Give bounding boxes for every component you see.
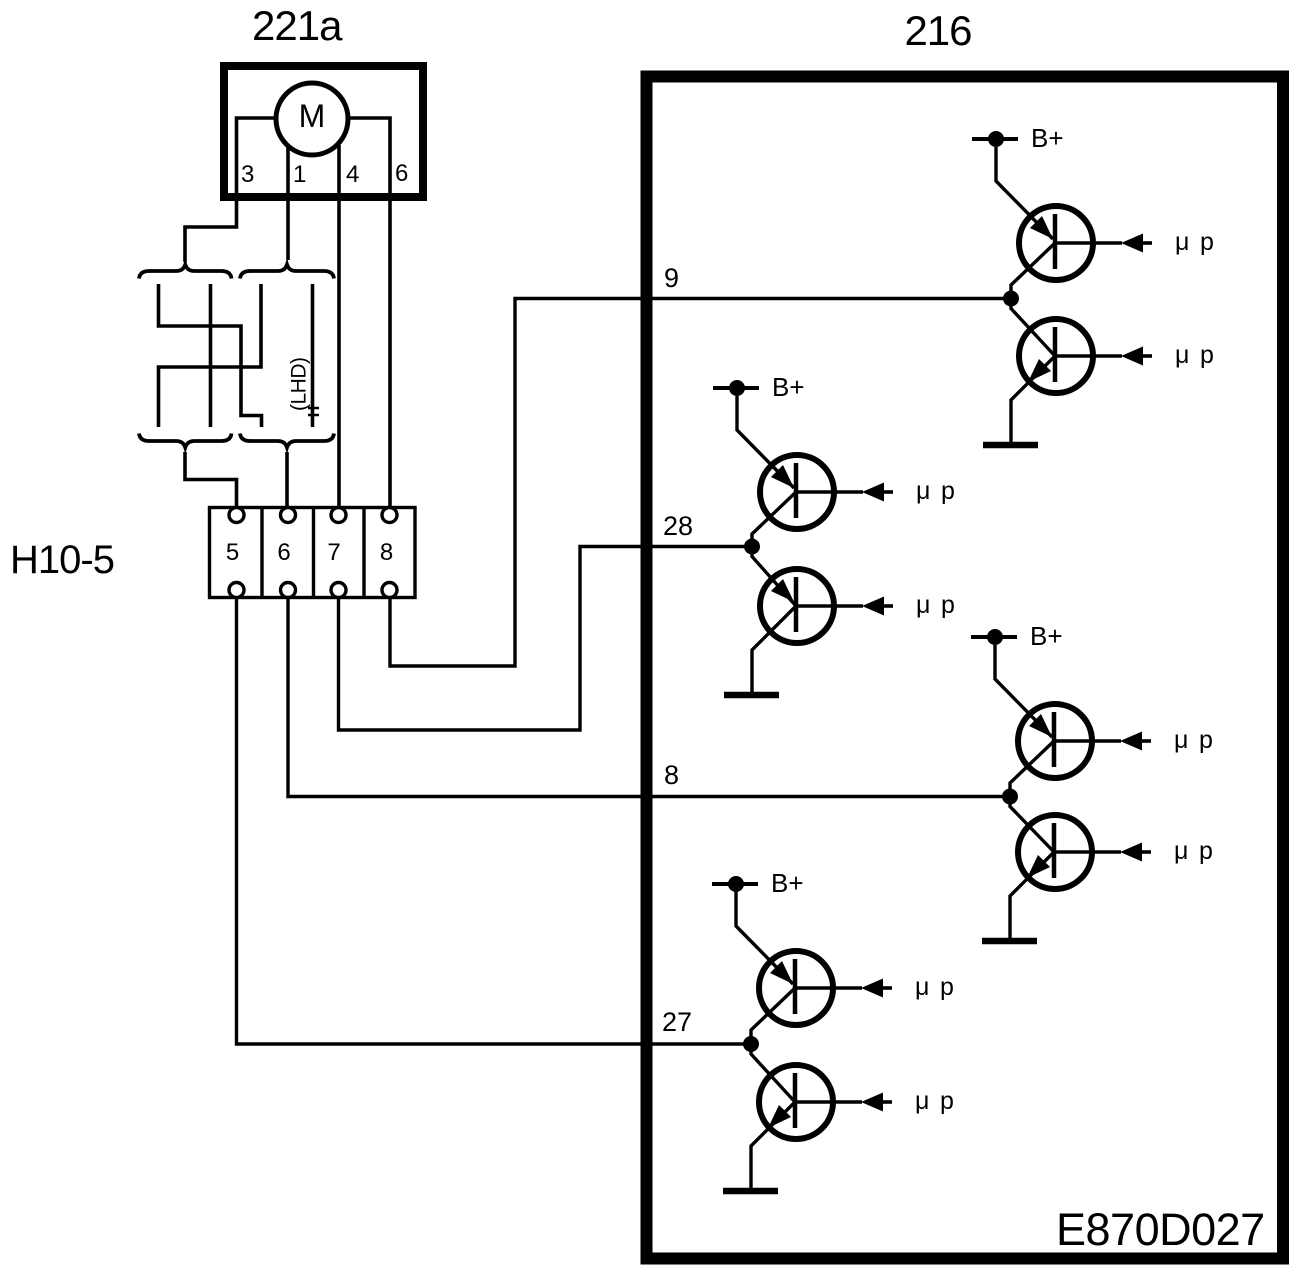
svg-text:p: p bbox=[1200, 228, 1214, 256]
transistor Q3b base lead to uP bbox=[1054, 850, 1121, 854]
svg-text:E870D027: E870D027 bbox=[1056, 1204, 1265, 1255]
wire lower-left brace to connector pin 5 bbox=[185, 452, 237, 507]
wire node 27 to Q4b bbox=[751, 1044, 795, 1102]
svg-text:8: 8 bbox=[664, 760, 679, 790]
power B+ terminal dot (pair 2) bbox=[729, 380, 745, 396]
wire lower-right brace to connector pin 6 bbox=[285, 452, 289, 507]
svg-text:p: p bbox=[1200, 341, 1214, 369]
wire node 9 to Q1b bbox=[1011, 299, 1055, 357]
transistor Q4a circle bbox=[759, 951, 833, 1025]
ECU box 216 bbox=[647, 77, 1284, 1259]
wire pin 4 lead bbox=[337, 145, 341, 507]
svg-text:M: M bbox=[299, 98, 326, 134]
svg-text:p: p bbox=[941, 591, 955, 619]
transistor Q4b circle bbox=[759, 1065, 833, 1139]
ground (pair 3) bbox=[982, 938, 1037, 945]
svg-text:μ: μ bbox=[915, 973, 929, 1001]
power B+ terminal lead (pair 4) bbox=[712, 882, 758, 886]
wire Q4b emitter to ground bbox=[751, 1102, 795, 1191]
power B+ terminal dot (pair 4) bbox=[728, 876, 744, 892]
transistor Q4b base bar bbox=[793, 1073, 798, 1128]
ground (pair 2) bbox=[724, 692, 779, 699]
svg-text:4: 4 bbox=[346, 161, 359, 188]
svg-text:B+: B+ bbox=[771, 868, 804, 898]
transistor Q3a circle bbox=[1018, 704, 1092, 778]
connector pin 7 top contact bbox=[331, 508, 346, 523]
transistor Q3b circle bbox=[1018, 815, 1092, 889]
connector H10-5 body bbox=[210, 508, 416, 598]
wire B+ stem to Q1a emitter (pair 1) bbox=[996, 147, 1053, 239]
wire Q1a collector to node 9 bbox=[1011, 243, 1055, 299]
splice ticks on w4 bbox=[308, 407, 319, 410]
wire motor left terminal to pin 3 bbox=[185, 118, 277, 262]
svg-text:(LHD): (LHD) bbox=[288, 358, 311, 412]
power B+ terminal lead (pair 3) bbox=[971, 635, 1017, 639]
uP lead stub at Q1b bbox=[1142, 354, 1152, 358]
wire Q2a collector to node 28 bbox=[752, 492, 796, 547]
transistor Q2b circle bbox=[760, 569, 834, 643]
uP input arrowhead at Q1b bbox=[1121, 347, 1143, 366]
wire w4 straight bbox=[311, 284, 315, 427]
uP lead stub at Q2b bbox=[883, 604, 893, 608]
svg-text:B+: B+ bbox=[772, 372, 805, 402]
svg-text:μ: μ bbox=[1175, 341, 1189, 369]
uP lead stub at Q3a bbox=[1141, 739, 1151, 743]
wire w1 crossover (pos1 to pos3) bbox=[159, 284, 262, 427]
wire net 9 : pin 8 to node 9 bbox=[390, 299, 1011, 667]
transistor Q1a base bar bbox=[1053, 214, 1058, 269]
ground (pair 4) bbox=[723, 1188, 778, 1195]
motor assembly box 221a bbox=[224, 66, 423, 197]
uP lead stub at Q4b bbox=[882, 1100, 892, 1104]
svg-text:3: 3 bbox=[241, 161, 254, 188]
svg-text:H10-5: H10-5 bbox=[10, 538, 114, 582]
connector pin 7 bottom contact bbox=[331, 583, 346, 598]
power B+ terminal lead (pair 2) bbox=[713, 386, 759, 390]
connector cell divider 6/7 bbox=[312, 508, 315, 598]
emitter arrow of Q3b bbox=[1027, 855, 1050, 878]
junction node 28 dot bbox=[744, 539, 760, 555]
svg-text:μ: μ bbox=[1174, 726, 1188, 754]
wire B+ stem to Q3a emitter (pair 3) bbox=[995, 645, 1052, 737]
svg-text:8: 8 bbox=[380, 539, 393, 566]
svg-text:μ: μ bbox=[1174, 837, 1188, 865]
wire Q3b emitter to ground bbox=[1010, 852, 1054, 941]
harness brace upper left bbox=[139, 265, 232, 279]
connector pin 8 bottom contact bbox=[382, 583, 397, 598]
svg-text:28: 28 bbox=[663, 511, 693, 541]
transistor Q3a base lead to uP bbox=[1054, 739, 1121, 743]
wire B+ stem to Q4a emitter (pair 4) bbox=[736, 892, 793, 984]
wire w2 straight bbox=[209, 284, 213, 427]
transistor Q4b base lead to uP bbox=[795, 1100, 862, 1104]
uP input arrowhead at Q3b bbox=[1120, 843, 1142, 862]
transistor Q1b base bar bbox=[1053, 327, 1058, 382]
junction node 9 dot bbox=[1003, 291, 1019, 307]
wire motor right terminal to pin 6 bbox=[347, 118, 390, 507]
svg-text:p: p bbox=[940, 973, 954, 1001]
emitter arrow of Q3a bbox=[1029, 714, 1052, 737]
transistor Q1a circle bbox=[1019, 206, 1093, 280]
svg-text:B+: B+ bbox=[1031, 123, 1064, 153]
svg-text:6: 6 bbox=[277, 539, 290, 566]
svg-text:p: p bbox=[1199, 837, 1213, 865]
emitter arrow of Q1a bbox=[1030, 216, 1053, 239]
svg-text:27: 27 bbox=[662, 1007, 692, 1037]
svg-text:μ: μ bbox=[916, 477, 930, 505]
wire net 28 : pin 7 to node 28 bbox=[339, 547, 753, 731]
transistor Q2a base bar bbox=[794, 463, 799, 518]
harness brace lower right bbox=[240, 434, 334, 448]
wire w3 crossover (pos3 to pos1) bbox=[159, 284, 262, 427]
transistor Q2a base lead to uP bbox=[796, 490, 863, 494]
svg-text:5: 5 bbox=[226, 539, 239, 566]
svg-text:B+: B+ bbox=[1030, 621, 1063, 651]
emitter arrow of Q1b bbox=[1028, 359, 1051, 382]
harness brace lower left bbox=[139, 434, 232, 448]
wire node 28 to Q2b bbox=[752, 547, 796, 607]
wire pin 1 lead bbox=[286, 147, 290, 260]
svg-text:9: 9 bbox=[664, 263, 679, 293]
uP input arrowhead at Q4b bbox=[861, 1093, 883, 1112]
svg-text:p: p bbox=[940, 1087, 954, 1115]
uP lead stub at Q1a bbox=[1142, 241, 1152, 245]
svg-text:221a: 221a bbox=[252, 2, 343, 49]
svg-text:6: 6 bbox=[395, 160, 408, 187]
power B+ terminal dot (pair 1) bbox=[988, 131, 1004, 147]
transistor Q2a circle bbox=[760, 455, 834, 529]
emitter arrow of Q2a bbox=[771, 465, 794, 488]
ground (pair 1) bbox=[983, 442, 1038, 449]
wire Q3a collector to node 8 bbox=[1010, 741, 1054, 797]
svg-text:p: p bbox=[1199, 726, 1213, 754]
connector pin 5 top contact bbox=[229, 508, 244, 523]
emitter arrow of Q4b bbox=[768, 1105, 791, 1128]
transistor Q3b base bar bbox=[1052, 823, 1057, 878]
wire Q1b emitter to ground bbox=[1011, 356, 1055, 445]
uP lead stub at Q4a bbox=[882, 986, 892, 990]
svg-text:p: p bbox=[941, 477, 955, 505]
power B+ terminal dot (pair 3) bbox=[987, 629, 1003, 645]
uP input arrowhead at Q2a bbox=[862, 483, 884, 502]
wire Q2b emitter to ground bbox=[752, 606, 796, 695]
uP input arrowhead at Q4a bbox=[861, 979, 883, 998]
connector cell divider 7/8 bbox=[362, 508, 365, 598]
connector cell divider 5/6 bbox=[260, 508, 263, 598]
uP lead stub at Q2a bbox=[883, 490, 893, 494]
svg-text:μ: μ bbox=[1175, 228, 1189, 256]
svg-text:μ: μ bbox=[916, 591, 930, 619]
svg-text:μ: μ bbox=[915, 1087, 929, 1115]
junction node 8 dot bbox=[1002, 789, 1018, 805]
transistor Q4a base bar bbox=[793, 959, 798, 1014]
transistor Q4a base lead to uP bbox=[795, 986, 862, 990]
svg-text:7: 7 bbox=[327, 539, 340, 566]
transistor Q1b circle bbox=[1019, 319, 1093, 393]
transistor Q1a base lead to uP bbox=[1055, 241, 1122, 245]
transistor Q1b base lead to uP bbox=[1055, 354, 1122, 358]
uP input arrowhead at Q2b bbox=[862, 597, 884, 616]
svg-text:1: 1 bbox=[293, 161, 306, 188]
transistor Q2b base bar bbox=[794, 577, 799, 632]
uP input arrowhead at Q3a bbox=[1120, 732, 1142, 751]
transistor Q3a base bar bbox=[1052, 712, 1057, 767]
harness brace upper right bbox=[240, 265, 334, 279]
transistor Q2b base lead to uP bbox=[796, 604, 863, 608]
emitter arrow of Q2b (on upper diagonal) bbox=[771, 579, 794, 602]
uP input arrowhead at Q1a bbox=[1121, 234, 1143, 253]
connector pin 5 bottom contact bbox=[229, 583, 244, 598]
motor M1 bbox=[276, 83, 348, 155]
connector pin 6 bottom contact bbox=[281, 583, 296, 598]
wire net 8 : pin 6 to node 8 bbox=[288, 598, 1010, 797]
wire Q4a collector to node 27 bbox=[751, 988, 795, 1044]
power B+ terminal lead (pair 1) bbox=[972, 137, 1018, 141]
wire net 27 : pin 5 to node 27 bbox=[237, 598, 752, 1044]
connector pin 6 top contact bbox=[281, 508, 296, 523]
wire node 8 to Q3b bbox=[1010, 797, 1054, 853]
wire B+ stem to Q2a emitter (pair 2) bbox=[737, 396, 794, 488]
uP lead stub at Q3b bbox=[1141, 850, 1151, 854]
svg-text:216: 216 bbox=[904, 7, 971, 54]
connector pin 8 top contact bbox=[382, 508, 397, 523]
junction node 27 dot bbox=[743, 1036, 759, 1052]
emitter arrow of Q4a bbox=[770, 961, 793, 984]
